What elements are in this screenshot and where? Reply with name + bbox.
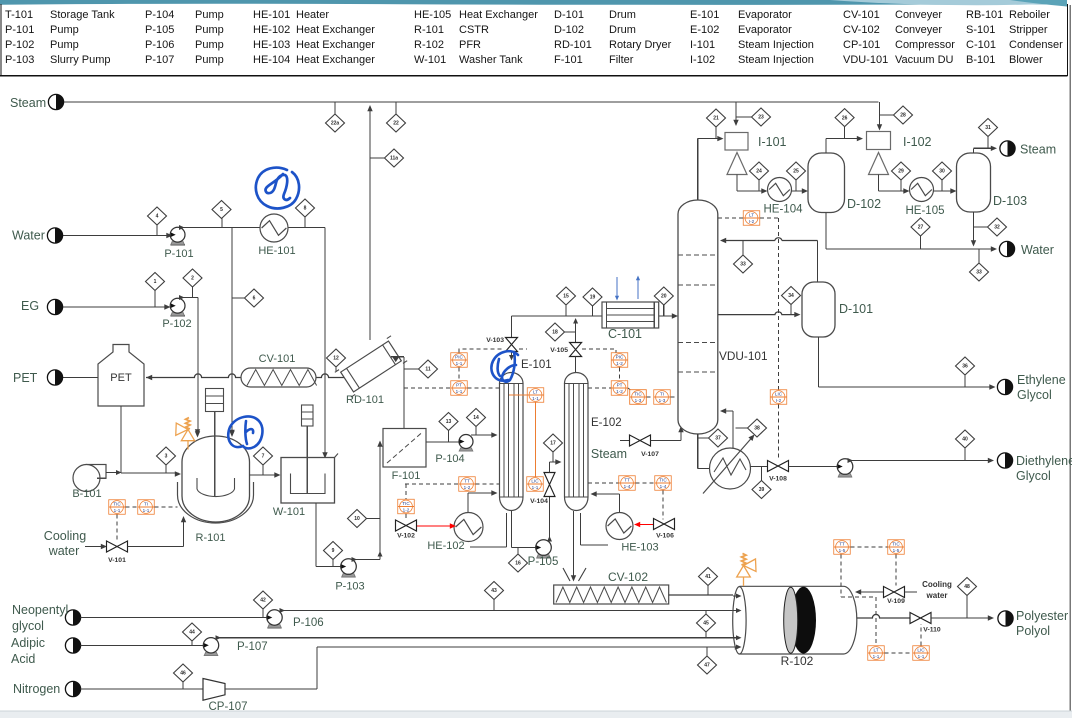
svg-text:LT: LT <box>533 390 538 395</box>
svg-text:HE-103: HE-103 <box>621 542 658 554</box>
svg-text:Pump: Pump <box>195 9 224 21</box>
svg-text:R-102: R-102 <box>781 654 814 668</box>
svg-text:W-101: W-101 <box>414 54 446 66</box>
svg-text:HE-102: HE-102 <box>253 24 290 36</box>
svg-text:Stripper: Stripper <box>1009 24 1048 36</box>
svg-text:1-1: 1-1 <box>143 508 150 513</box>
svg-text:45: 45 <box>703 621 709 627</box>
svg-text:P-102: P-102 <box>162 318 191 330</box>
svg-text:P-107: P-107 <box>145 54 174 66</box>
svg-text:LIC: LIC <box>531 479 539 484</box>
svg-text:F-101: F-101 <box>554 54 583 66</box>
svg-text:B-101: B-101 <box>966 54 995 66</box>
svg-text:P-102: P-102 <box>5 39 34 51</box>
svg-text:47: 47 <box>704 663 710 669</box>
svg-text:Glycol: Glycol <box>1016 469 1051 483</box>
svg-text:1-2: 1-2 <box>616 389 623 394</box>
svg-text:31: 31 <box>985 125 991 131</box>
svg-text:glycol: glycol <box>12 619 44 633</box>
svg-text:D-101: D-101 <box>554 9 584 21</box>
svg-text:Slurry Pump: Slurry Pump <box>50 54 111 66</box>
svg-text:15: 15 <box>563 294 569 300</box>
svg-text:R-101: R-101 <box>196 532 226 544</box>
svg-text:30: 30 <box>939 169 945 175</box>
svg-text:C-101: C-101 <box>608 327 642 341</box>
svg-text:V-103: V-103 <box>486 337 504 344</box>
svg-text:11a: 11a <box>390 156 398 162</box>
svg-text:HE-102: HE-102 <box>427 540 464 552</box>
svg-text:Compressor: Compressor <box>895 39 955 51</box>
svg-text:42: 42 <box>260 598 266 604</box>
svg-text:Reboiler: Reboiler <box>1009 9 1050 21</box>
svg-text:1-1: 1-1 <box>456 389 463 394</box>
svg-text:Blower: Blower <box>1009 54 1043 66</box>
svg-text:Acid: Acid <box>11 652 35 666</box>
svg-text:C-101: C-101 <box>966 39 996 51</box>
svg-text:36: 36 <box>962 364 968 370</box>
svg-text:1: 1 <box>154 279 157 285</box>
svg-text:17: 17 <box>550 441 556 447</box>
svg-text:Ethylene: Ethylene <box>1017 373 1066 387</box>
svg-text:RB-101: RB-101 <box>966 9 1003 21</box>
svg-text:1-3: 1-3 <box>659 398 666 403</box>
svg-text:CV-101: CV-101 <box>843 9 880 21</box>
svg-text:E-102: E-102 <box>591 417 622 429</box>
svg-text:P-103: P-103 <box>5 54 34 66</box>
svg-text:Pump: Pump <box>50 39 79 51</box>
svg-text:R-101: R-101 <box>414 24 444 36</box>
svg-text:E-101: E-101 <box>690 9 719 21</box>
svg-text:TT: TT <box>464 479 470 484</box>
svg-text:34: 34 <box>788 293 794 299</box>
svg-text:P-107: P-107 <box>237 641 268 653</box>
svg-text:LIC: LIC <box>917 648 925 653</box>
svg-text:P-103: P-103 <box>335 581 364 593</box>
svg-text:Vacuum DU: Vacuum DU <box>895 54 954 66</box>
svg-text:Cooling: Cooling <box>44 529 86 543</box>
svg-text:43: 43 <box>491 588 497 594</box>
svg-text:Steam Injection: Steam Injection <box>738 39 814 51</box>
svg-text:TIC: TIC <box>113 502 121 507</box>
svg-text:5: 5 <box>220 207 223 213</box>
svg-text:Heat Exchanger: Heat Exchanger <box>296 39 375 51</box>
svg-text:LT: LT <box>873 648 878 653</box>
svg-text:19: 19 <box>590 295 596 301</box>
svg-text:Water: Water <box>1021 243 1054 257</box>
svg-text:TIC: TIC <box>402 501 410 506</box>
svg-text:1-4: 1-4 <box>624 484 631 489</box>
svg-text:32: 32 <box>994 225 1000 231</box>
svg-text:HE-103: HE-103 <box>253 39 290 51</box>
svg-text:9: 9 <box>332 548 335 554</box>
svg-text:P-104: P-104 <box>145 9 174 21</box>
svg-text:TI: TI <box>144 502 148 507</box>
svg-text:TT: TT <box>839 542 845 547</box>
svg-text:P-106: P-106 <box>293 617 324 629</box>
svg-text:Heat Exchanger: Heat Exchanger <box>296 54 375 66</box>
svg-text:27: 27 <box>918 225 924 231</box>
svg-text:33: 33 <box>976 270 982 276</box>
svg-text:PT: PT <box>456 383 462 388</box>
svg-text:44: 44 <box>189 630 195 636</box>
svg-text:1-5: 1-5 <box>893 548 900 553</box>
svg-text:TIC: TIC <box>659 478 667 483</box>
svg-text:46: 46 <box>180 671 186 677</box>
svg-text:1-1: 1-1 <box>873 654 880 659</box>
svg-text:P-101: P-101 <box>164 248 193 260</box>
svg-text:D-103: D-103 <box>993 194 1027 208</box>
svg-text:D-101: D-101 <box>839 302 873 316</box>
svg-text:Polyol: Polyol <box>1016 624 1050 638</box>
svg-text:I-102: I-102 <box>690 54 715 66</box>
svg-text:33: 33 <box>740 262 746 268</box>
svg-text:PET: PET <box>13 371 38 385</box>
svg-text:V-102: V-102 <box>397 533 415 540</box>
svg-text:HE-101: HE-101 <box>258 245 295 257</box>
svg-text:23: 23 <box>758 115 764 121</box>
svg-text:Drum: Drum <box>609 9 636 21</box>
svg-text:1-2: 1-2 <box>616 361 623 366</box>
svg-text:V-106: V-106 <box>656 533 674 540</box>
svg-text:Drum: Drum <box>609 24 636 36</box>
svg-text:14: 14 <box>473 415 479 421</box>
svg-text:VDU-101: VDU-101 <box>843 54 888 66</box>
svg-text:TIC: TIC <box>892 542 900 547</box>
svg-text:I-2: I-2 <box>749 219 755 224</box>
svg-text:V-108: V-108 <box>769 476 787 483</box>
svg-text:Evaporator: Evaporator <box>738 24 792 36</box>
svg-text:Diethylene: Diethylene <box>1016 454 1072 468</box>
svg-text:Pump: Pump <box>195 24 224 36</box>
svg-text:HE-104: HE-104 <box>253 54 290 66</box>
svg-text:38: 38 <box>754 426 760 432</box>
svg-text:8: 8 <box>304 206 307 212</box>
svg-text:16: 16 <box>515 561 521 567</box>
svg-text:25: 25 <box>793 169 799 175</box>
svg-text:V-110: V-110 <box>923 627 941 634</box>
svg-text:2: 2 <box>191 276 194 282</box>
svg-text:40: 40 <box>962 437 968 443</box>
svg-text:PET: PET <box>110 372 132 384</box>
svg-text:PIC: PIC <box>616 355 624 360</box>
svg-text:18: 18 <box>552 330 558 336</box>
svg-text:TI: TI <box>660 392 664 397</box>
svg-text:E-102: E-102 <box>690 24 719 36</box>
svg-text:1-2: 1-2 <box>403 508 410 513</box>
svg-text:Pump: Pump <box>50 24 79 36</box>
svg-text:P-106: P-106 <box>145 39 174 51</box>
svg-text:Filter: Filter <box>609 54 634 66</box>
svg-text:Condenser: Condenser <box>1009 39 1063 51</box>
svg-text:R-102: R-102 <box>414 39 444 51</box>
svg-text:12: 12 <box>333 356 339 362</box>
svg-text:V-107: V-107 <box>641 451 659 458</box>
svg-text:F-101: F-101 <box>392 470 421 482</box>
svg-text:Conveyer: Conveyer <box>895 24 942 36</box>
svg-text:I-101: I-101 <box>758 135 787 149</box>
svg-text:P-104: P-104 <box>435 453 464 465</box>
svg-text:Water: Water <box>12 229 45 243</box>
svg-text:29: 29 <box>898 169 904 175</box>
svg-text:Adipic: Adipic <box>11 636 45 650</box>
svg-text:Rotary Dryer: Rotary Dryer <box>609 39 672 51</box>
svg-text:4: 4 <box>156 214 159 220</box>
svg-text:E-101: E-101 <box>521 359 552 371</box>
svg-text:PIC: PIC <box>455 355 463 360</box>
svg-text:HE-101: HE-101 <box>253 9 290 21</box>
svg-text:24: 24 <box>756 169 762 175</box>
svg-text:Heat Exchanger: Heat Exchanger <box>296 24 375 36</box>
svg-text:Steam: Steam <box>10 96 46 110</box>
svg-text:EG: EG <box>21 299 39 313</box>
svg-text:11: 11 <box>425 367 431 373</box>
svg-text:Storage Tank: Storage Tank <box>50 9 115 21</box>
svg-text:Washer Tank: Washer Tank <box>459 54 523 66</box>
svg-text:V-105: V-105 <box>550 347 568 354</box>
svg-text:RD-101: RD-101 <box>346 394 384 406</box>
svg-text:39: 39 <box>759 487 765 493</box>
svg-text:V-109: V-109 <box>887 598 905 605</box>
svg-text:Heater: Heater <box>296 9 329 21</box>
svg-text:1-1: 1-1 <box>114 508 121 513</box>
svg-text:20: 20 <box>661 294 667 300</box>
svg-text:22: 22 <box>393 121 399 127</box>
svg-text:TT: TT <box>624 478 630 483</box>
svg-text:D-102: D-102 <box>554 24 584 36</box>
svg-text:CV-101: CV-101 <box>259 353 296 365</box>
svg-text:RD-101: RD-101 <box>554 39 592 51</box>
svg-text:PT: PT <box>617 383 623 388</box>
svg-text:Heat Exchanger: Heat Exchanger <box>459 9 538 21</box>
svg-text:HE-104: HE-104 <box>764 204 804 216</box>
svg-text:Glycol: Glycol <box>1017 388 1052 402</box>
svg-text:1-1: 1-1 <box>532 485 539 490</box>
svg-text:P-105: P-105 <box>145 24 174 36</box>
svg-text:1-2: 1-2 <box>464 485 471 490</box>
svg-text:1-1: 1-1 <box>918 654 925 659</box>
svg-text:Evaporator: Evaporator <box>738 9 792 21</box>
svg-text:D-102: D-102 <box>847 197 881 211</box>
svg-text:CV-102: CV-102 <box>608 570 648 584</box>
svg-text:Nitrogen: Nitrogen <box>13 682 60 696</box>
svg-text:37: 37 <box>715 436 721 442</box>
svg-text:7: 7 <box>262 454 265 460</box>
svg-text:B-101: B-101 <box>72 488 101 500</box>
svg-text:LIC: LIC <box>775 392 783 397</box>
svg-text:22a: 22a <box>331 121 340 127</box>
svg-text:water: water <box>48 544 80 558</box>
svg-text:3: 3 <box>165 454 168 460</box>
svg-text:21: 21 <box>713 116 719 122</box>
svg-text:W-101: W-101 <box>273 506 305 518</box>
svg-text:T-101: T-101 <box>5 9 33 21</box>
svg-text:13: 13 <box>446 419 452 425</box>
svg-text:6: 6 <box>253 296 256 302</box>
svg-text:PFR: PFR <box>459 39 481 51</box>
svg-text:26: 26 <box>842 115 848 121</box>
svg-text:10: 10 <box>354 516 360 522</box>
svg-text:1-5: 1-5 <box>839 548 846 553</box>
svg-text:TIC: TIC <box>634 392 642 397</box>
svg-text:P-101: P-101 <box>5 24 34 36</box>
svg-text:V-101: V-101 <box>108 557 126 564</box>
svg-text:P-105: P-105 <box>528 556 559 568</box>
svg-text:HE-105: HE-105 <box>906 205 945 217</box>
svg-text:HE-105: HE-105 <box>414 9 451 21</box>
svg-text:Conveyer: Conveyer <box>895 9 942 21</box>
svg-text:Neopentyl: Neopentyl <box>12 603 68 617</box>
svg-text:Cooling: Cooling <box>922 580 952 589</box>
svg-text:V-104: V-104 <box>530 498 548 505</box>
svg-text:CP-107: CP-107 <box>209 701 248 713</box>
svg-text:Polyester: Polyester <box>1016 609 1068 623</box>
svg-text:I-101: I-101 <box>690 39 715 51</box>
svg-text:28: 28 <box>900 113 906 119</box>
svg-text:Steam Injection: Steam Injection <box>738 54 814 66</box>
svg-text:LT: LT <box>749 213 754 218</box>
svg-text:1-3: 1-3 <box>635 398 642 403</box>
svg-text:Steam: Steam <box>591 447 627 461</box>
svg-text:1-4: 1-4 <box>660 484 667 489</box>
svg-text:I-2: I-2 <box>776 398 782 403</box>
svg-text:1-1: 1-1 <box>532 396 539 401</box>
svg-text:Steam: Steam <box>1020 143 1056 157</box>
svg-text:CV-102: CV-102 <box>843 24 880 36</box>
svg-text:VDU-101: VDU-101 <box>719 349 768 363</box>
svg-text:1-1: 1-1 <box>456 361 463 366</box>
svg-text:Pump: Pump <box>195 39 224 51</box>
svg-text:I-102: I-102 <box>903 135 932 149</box>
svg-text:Pump: Pump <box>195 54 224 66</box>
svg-text:41: 41 <box>705 574 711 580</box>
svg-text:S-101: S-101 <box>966 24 995 36</box>
svg-text:CSTR: CSTR <box>459 24 489 36</box>
svg-text:48: 48 <box>964 584 970 590</box>
svg-text:water: water <box>926 591 948 600</box>
svg-text:CP-101: CP-101 <box>843 39 880 51</box>
